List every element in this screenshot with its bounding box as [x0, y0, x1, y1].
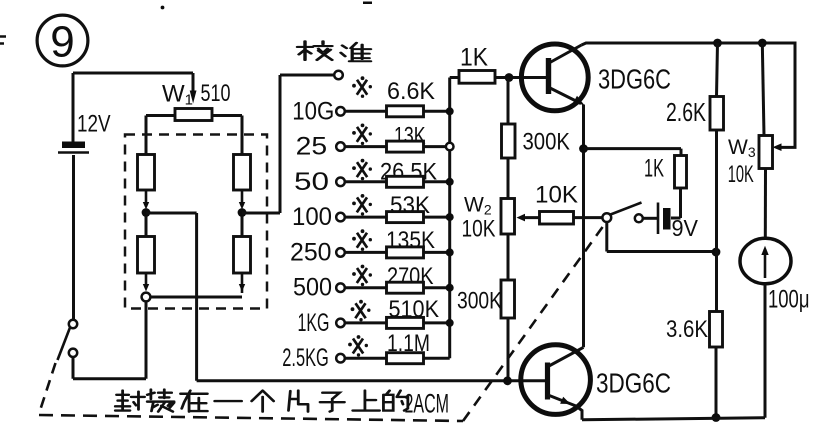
svg-text:9: 9: [50, 18, 74, 67]
svg-text:10G: 10G: [292, 97, 334, 125]
svg-text:9V: 9V: [672, 215, 699, 241]
svg-text:510: 510: [201, 80, 231, 107]
svg-text:2.5KG: 2.5KG: [282, 344, 329, 372]
svg-text:10K: 10K: [728, 161, 754, 188]
svg-text:W2: W2: [464, 194, 492, 218]
svg-text:1K: 1K: [460, 44, 488, 72]
svg-text:W3: W3: [728, 136, 756, 160]
svg-text:25: 25: [296, 133, 328, 161]
svg-text:6.6K: 6.6K: [387, 78, 435, 105]
svg-text:300K: 300K: [457, 288, 502, 315]
svg-text:1K: 1K: [644, 155, 664, 183]
svg-text:250: 250: [290, 238, 332, 266]
svg-text:50: 50: [294, 168, 329, 196]
svg-text:500: 500: [293, 274, 332, 302]
svg-text:300K: 300K: [523, 129, 571, 156]
svg-text:2.6K: 2.6K: [666, 97, 706, 127]
svg-text:1KG: 1KG: [298, 309, 330, 337]
svg-text:3.6K: 3.6K: [666, 316, 708, 343]
svg-text:12V: 12V: [77, 111, 111, 138]
svg-text:10K: 10K: [462, 216, 496, 243]
svg-text:100: 100: [292, 203, 332, 231]
svg-text:3DG6C: 3DG6C: [598, 64, 671, 95]
svg-text:W1: W1: [162, 81, 193, 109]
svg-text:3DG6C: 3DG6C: [596, 368, 671, 399]
svg-text:10K: 10K: [535, 182, 578, 209]
svg-text:2ACM: 2ACM: [405, 389, 450, 419]
svg-text:100μ: 100μ: [768, 286, 810, 314]
